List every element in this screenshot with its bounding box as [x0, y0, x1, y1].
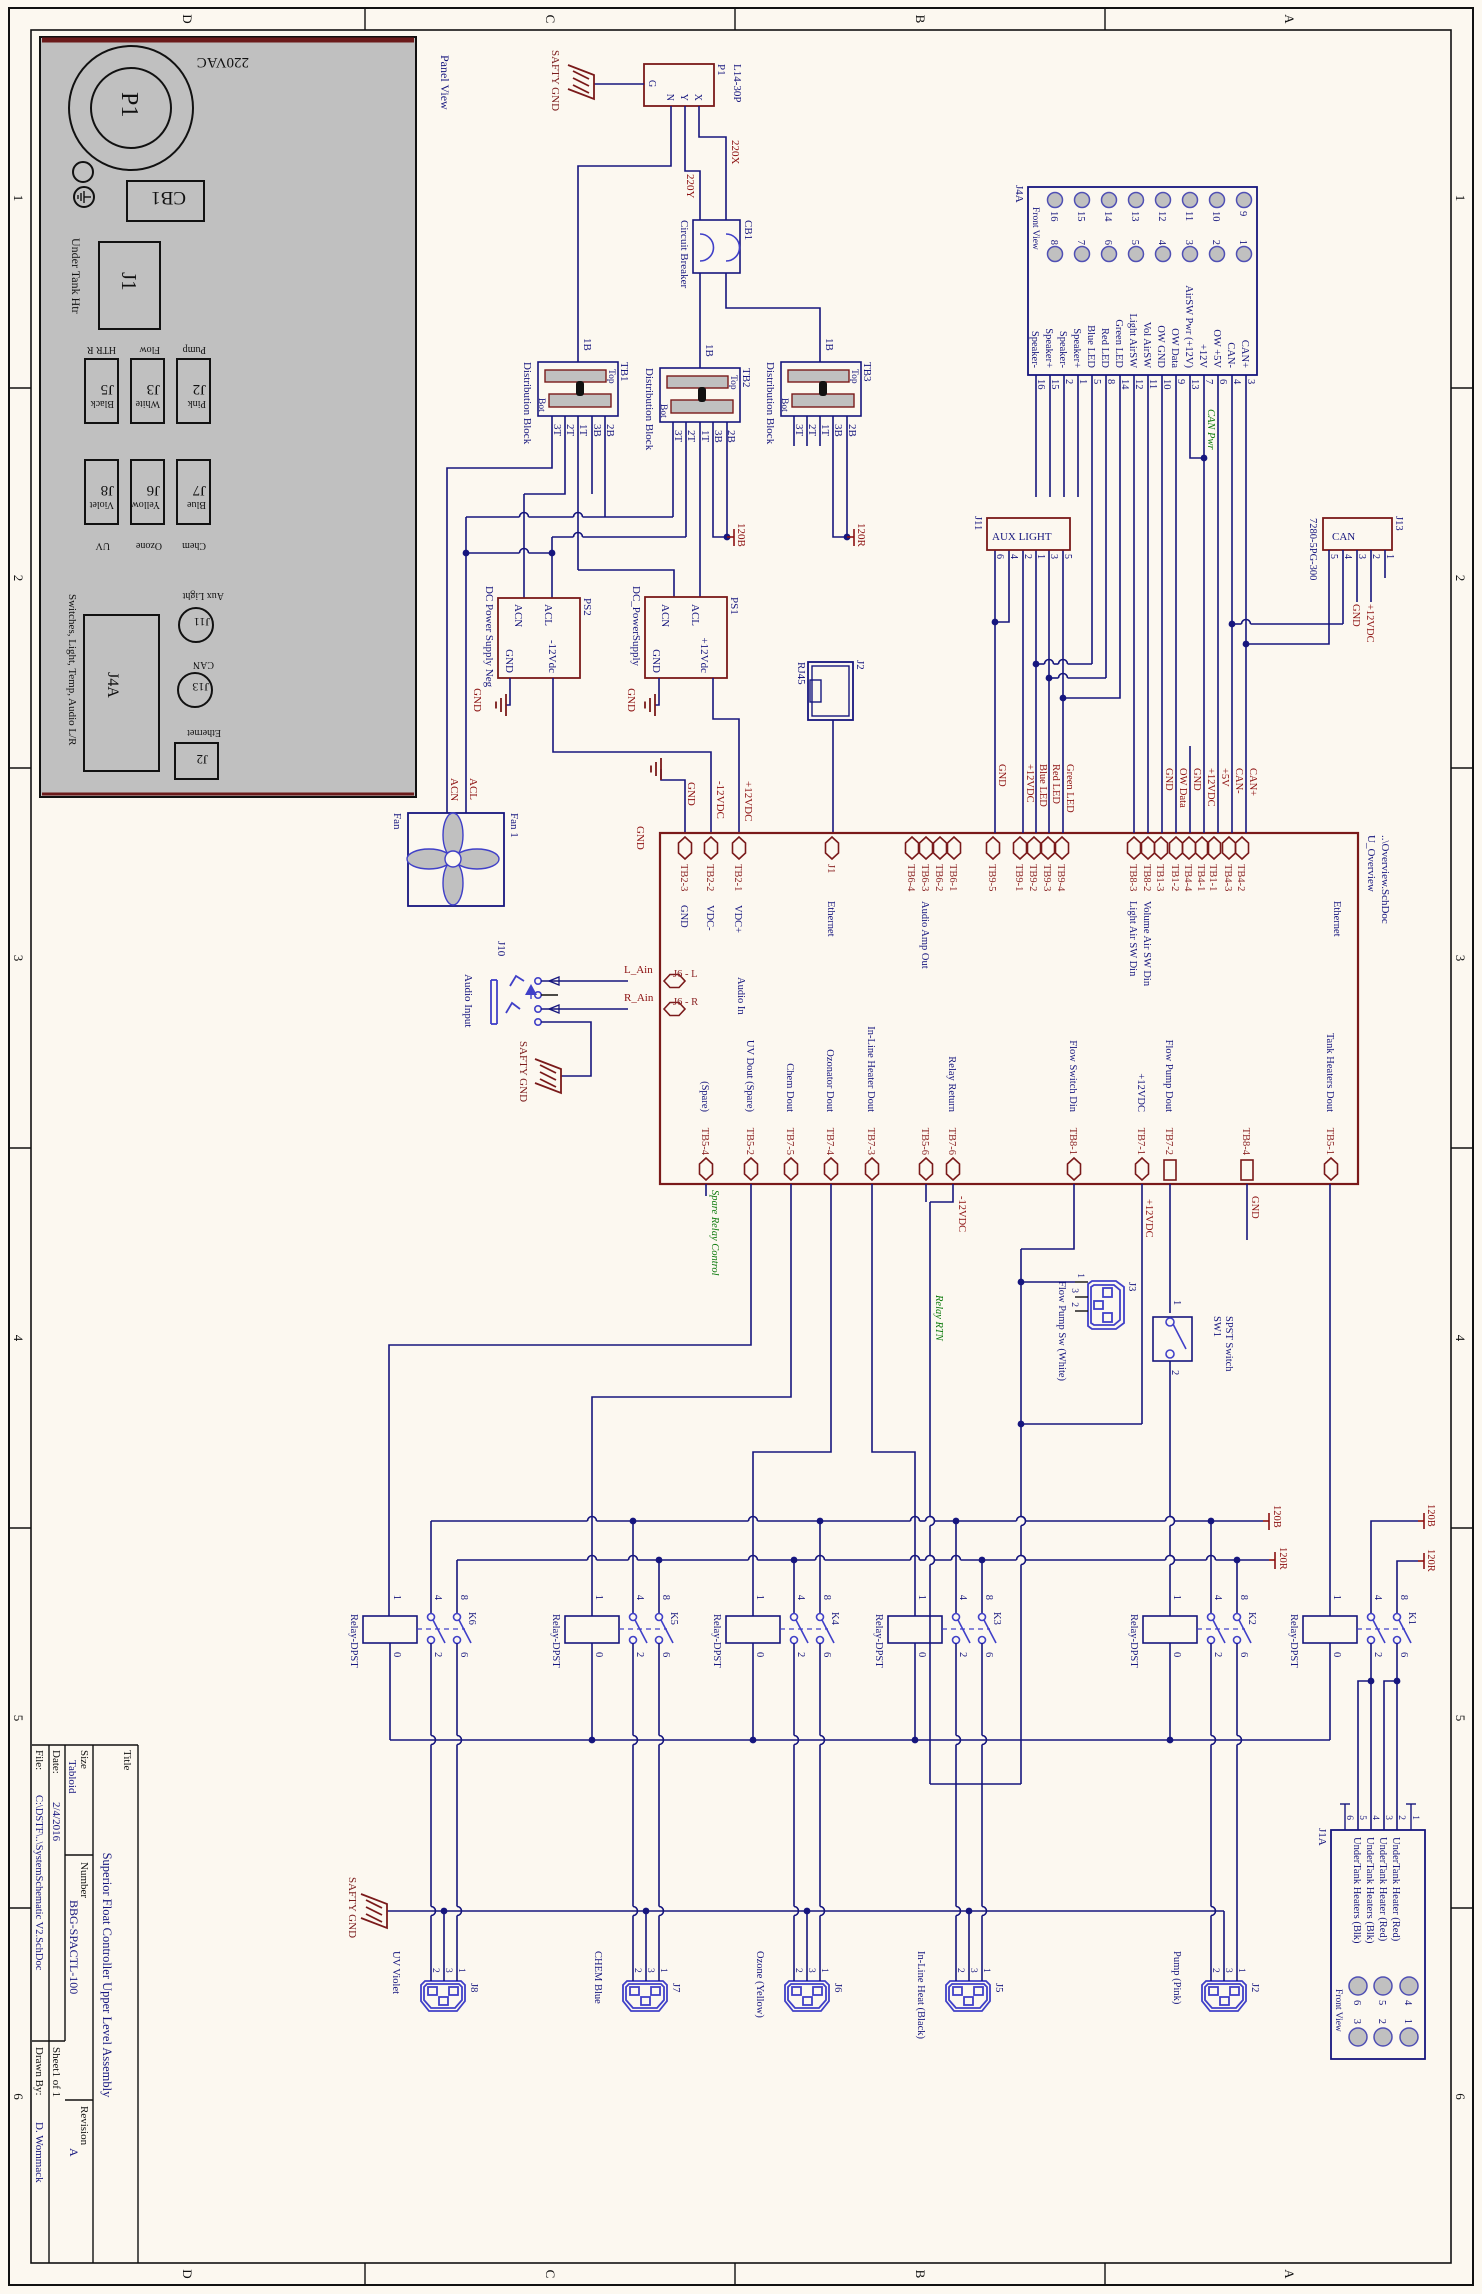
- +12V down to flow switch row: [1021, 1423, 1142, 1425]
- TB1-1T wire to PS1 ACN: [577, 416, 579, 570]
- svg-text:1: 1: [1453, 195, 1468, 202]
- svg-text:Tank Heaters Dout: Tank Heaters Dout: [1324, 1033, 1335, 1112]
- AirSW GND segment to TB4-4: [1189, 746, 1191, 833]
- svg-text:J5: J5: [101, 381, 114, 397]
- svg-text:Under Tank Htr: Under Tank Htr: [69, 238, 83, 314]
- svg-text:6: 6: [11, 2093, 26, 2100]
- svg-text:Red LED: Red LED: [1050, 764, 1061, 804]
- sheet entry TB5-6: [920, 1158, 933, 1180]
- svg-text:SAFTY GND: SAFTY GND: [346, 1877, 358, 1938]
- svg-text:Pump: Pump: [183, 344, 206, 355]
- svg-text:+5V: +5V: [1219, 768, 1230, 787]
- svg-text:2: 2: [634, 1652, 645, 1657]
- circuit breaker CB1: [693, 220, 740, 273]
- TB5-2 UV dout to K6: [389, 1184, 751, 1616]
- svg-text:Ethernet: Ethernet: [825, 901, 836, 937]
- svg-text:TB1-3: TB1-3: [1154, 864, 1165, 891]
- svg-text:TB7-1: TB7-1: [1135, 1128, 1146, 1155]
- svg-text:Relay RTN: Relay RTN: [933, 1294, 944, 1342]
- svg-text:Bot: Bot: [658, 404, 668, 418]
- sheet entry TB5-1: [1325, 1158, 1338, 1180]
- svg-text:1: 1: [1171, 1595, 1182, 1600]
- svg-text:C:\DSTF\..\SystemSchematic V2.: C:\DSTF\..\SystemSchematic V2.SchDoc: [33, 1795, 44, 1971]
- svg-text:13: 13: [1129, 211, 1140, 222]
- aux pin2 +12VDC row: [1022, 550, 1024, 833]
- svg-text:Ozone (Yellow): Ozone (Yellow): [754, 1951, 765, 2018]
- distribution block TB2: [660, 368, 740, 422]
- svg-text:+12VDC: +12VDC: [742, 781, 754, 821]
- svg-text:(Spare): (Spare): [699, 1081, 710, 1112]
- svg-text:Violet: Violet: [89, 499, 114, 510]
- svg-text:Relay-DPST: Relay-DPST: [711, 1614, 722, 1668]
- svg-text:120R: 120R: [1425, 1549, 1436, 1572]
- svg-text:TB1-2: TB1-2: [1169, 864, 1180, 891]
- svg-text:+12VDC: +12VDC: [1143, 1199, 1154, 1238]
- relay K5 pin0 to return bus: [591, 1643, 593, 1740]
- J4A pin 12 stub: [1133, 375, 1135, 400]
- svg-text:120B: 120B: [735, 523, 747, 547]
- svg-text:0: 0: [1171, 1652, 1182, 1657]
- J1A pin1 stub: [1410, 1804, 1412, 1830]
- svg-text:6: 6: [1238, 1652, 1249, 1657]
- svg-text:DC_PowerSupply: DC_PowerSupply: [630, 586, 642, 667]
- J4A pin circle 11 / 3: [1183, 193, 1198, 208]
- svg-text:Aux Light: Aux Light: [182, 590, 224, 601]
- svg-text:120R: 120R: [855, 523, 867, 548]
- svg-text:TB4-3: TB4-3: [1222, 864, 1233, 891]
- relay K4 pin0 to return bus: [752, 1643, 754, 1740]
- sheet entry TB6-1: [948, 837, 961, 859]
- P1 connector circle (panel view): [69, 46, 193, 170]
- svg-text:J6 - R: J6 - R: [673, 997, 698, 1008]
- svg-text:Panel View: Panel View: [438, 55, 452, 110]
- ground pin3 stubs to safety bus: [443, 1911, 445, 1981]
- svg-text:220VAC: 220VAC: [197, 54, 249, 70]
- svg-text:2: 2: [1022, 554, 1033, 559]
- mid contact stub: [541, 994, 558, 996]
- svg-text:CAN: CAN: [1332, 531, 1355, 543]
- svg-text:J7: J7: [192, 482, 206, 498]
- svg-text:CB1: CB1: [151, 187, 186, 208]
- flow row 461: [1020, 1249, 1022, 1517]
- J4A pin circle 15 / 7: [1075, 193, 1090, 208]
- svg-text:ACN: ACN: [512, 604, 524, 627]
- svg-text:P1: P1: [715, 64, 727, 76]
- svg-text:UV Dout (Spare): UV Dout (Spare): [744, 1040, 755, 1113]
- svg-text:D. Wommack: D. Wommack: [33, 2122, 45, 2183]
- svg-text:CAN: CAN: [193, 659, 214, 670]
- bundle rows J4A to U block: [1245, 400, 1247, 833]
- svg-text:Distribution Block: Distribution Block: [764, 362, 776, 445]
- svg-text:White: White: [135, 398, 160, 409]
- svg-text:TB6-1: TB6-1: [947, 864, 958, 891]
- SPST switch SW1: [1153, 1317, 1192, 1361]
- sheet entry TB9-2: [1028, 837, 1041, 859]
- svg-text:Ozonator Dout: Ozonator Dout: [824, 1049, 835, 1112]
- panel J4A: [84, 615, 159, 771]
- svg-text:TB9-4: TB9-4: [1055, 864, 1066, 892]
- svg-text:GND: GND: [1249, 1196, 1260, 1219]
- svg-text:8: 8: [1048, 240, 1059, 245]
- svg-text:TB4-2: TB4-2: [1235, 864, 1246, 891]
- svg-text:GND: GND: [685, 782, 697, 806]
- connector P1 L14-30P: [644, 64, 714, 106]
- svg-text:1: 1: [391, 1595, 402, 1600]
- svg-text:1: 1: [916, 1595, 927, 1600]
- svg-text:Blue LED: Blue LED: [1085, 325, 1096, 368]
- relay K3 contacts: [953, 1614, 960, 1621]
- TB2-2T wire to PS2 ACL: [685, 422, 687, 537]
- svg-text:J1: J1: [825, 864, 836, 873]
- svg-text:Volume Air SW Din: Volume Air SW Din: [1141, 901, 1152, 987]
- svg-text:UnderTank Heater (Red): UnderTank Heater (Red): [1377, 1837, 1388, 1942]
- TB7-3 inline heater dout to K3: [872, 1184, 915, 1616]
- J4A pin circle 16 / 8: [1048, 193, 1063, 208]
- svg-text:X: X: [692, 94, 703, 102]
- svg-text:120B: 120B: [1425, 1504, 1436, 1527]
- svg-text:ACL: ACL: [542, 604, 554, 626]
- power supply PS2: [498, 598, 580, 678]
- svg-text:Vol AirSW: Vol AirSW: [1141, 322, 1152, 368]
- AirSW Pwr jog to +12V: [1190, 400, 1201, 458]
- svg-text:GND: GND: [996, 764, 1007, 787]
- svg-text:TB7-5: TB7-5: [784, 1128, 795, 1155]
- svg-text:GND: GND: [1163, 768, 1174, 791]
- J4A pin 8 stub: [1105, 375, 1107, 400]
- panel J11 aux light: [179, 608, 213, 642]
- panel chassis ground circle: [74, 187, 94, 207]
- svg-text:3: 3: [1069, 1288, 1079, 1293]
- svg-text:4: 4: [1156, 240, 1167, 246]
- sheet entry TB6-3: [920, 837, 933, 859]
- svg-text:VDC+: VDC+: [732, 905, 743, 933]
- svg-text:P1: P1: [116, 92, 142, 117]
- panel J1 Under Tank Htr: [99, 242, 160, 329]
- relay K1 coil: [1303, 1616, 1357, 1643]
- svg-text:220X: 220X: [729, 140, 741, 165]
- svg-text:2: 2: [11, 575, 26, 582]
- svg-text:CHEM Blue: CHEM Blue: [592, 1951, 603, 2004]
- svg-text:Speaker-: Speaker-: [1029, 331, 1040, 369]
- svg-text:+12VDC: +12VDC: [1135, 1073, 1146, 1112]
- J4A pin circle 13 / 5: [1129, 193, 1144, 208]
- svg-text:J4A: J4A: [104, 672, 121, 698]
- sheet entry TB4-4: [1183, 837, 1196, 859]
- wire CB1 out to TB2 1B: [699, 273, 701, 368]
- svg-text:TB4-1: TB4-1: [1195, 864, 1206, 891]
- svg-text:CAN Pwr: CAN Pwr: [1205, 409, 1216, 450]
- svg-text:SPST Switch: SPST Switch: [1223, 1316, 1234, 1372]
- svg-text:J2: J2: [196, 752, 208, 767]
- svg-text:2: 2: [1453, 575, 1468, 582]
- svg-text:L_Ain: L_Ain: [624, 964, 653, 976]
- svg-text:Date:: Date:: [50, 1750, 62, 1774]
- svg-text:SAFTY GND: SAFTY GND: [549, 50, 561, 111]
- relay K1 pin0 to return bus: [1329, 1643, 1331, 1740]
- svg-text:TB8-1: TB8-1: [1067, 1128, 1078, 1155]
- wire P1-G to safety gnd: [594, 83, 644, 85]
- svg-text:2: 2: [432, 1652, 443, 1657]
- svg-text:GND: GND: [1191, 768, 1202, 791]
- svg-text:Light Air SW Din: Light Air SW Din: [1127, 901, 1138, 977]
- svg-text:ACN: ACN: [448, 778, 460, 801]
- connector J8 IEC: [421, 1981, 465, 2011]
- jack input direction arrows: [549, 977, 559, 985]
- svg-text:J6: J6: [832, 1983, 843, 1992]
- svg-text:Front View: Front View: [1030, 207, 1040, 250]
- svg-text:Spare Relay Control: Spare Relay Control: [709, 1190, 720, 1276]
- panel connectors 2-col grid: [177, 359, 210, 423]
- svg-text:+12V: +12V: [1197, 344, 1208, 368]
- svg-text:TB2-3: TB2-3: [678, 864, 689, 891]
- svg-text:120R: 120R: [1277, 1547, 1288, 1570]
- svg-text:0: 0: [1331, 1652, 1342, 1657]
- svg-text:TB5-2: TB5-2: [744, 1128, 755, 1155]
- svg-text:-12Vdc: -12Vdc: [546, 640, 558, 673]
- svg-text:Pump (Pink): Pump (Pink): [1171, 1951, 1182, 2005]
- sheet entry TB9-5: [987, 837, 1000, 859]
- J4A pin 6 stub: [1217, 375, 1219, 400]
- svg-text:Superior Float Controller Uppe: Superior Float Controller Upper Level As…: [100, 1853, 114, 2099]
- svg-text:0: 0: [593, 1652, 604, 1657]
- svg-text:4: 4: [1212, 1595, 1223, 1601]
- flow row to relay rtn jog: [930, 1783, 1021, 1785]
- spare relay control green label: [705, 1184, 707, 1196]
- sheet entry TB8-1: [1068, 1158, 1081, 1180]
- svg-text:5: 5: [1376, 2000, 1387, 2005]
- svg-text:TB8-3: TB8-3: [1127, 864, 1138, 891]
- svg-text:Tabloid: Tabloid: [66, 1760, 78, 1794]
- svg-text:1: 1: [11, 195, 26, 202]
- ACL link to PS2 ACL feed: [529, 552, 553, 554]
- svg-text:+12VDC: +12VDC: [1024, 764, 1035, 803]
- svg-text:J11: J11: [972, 516, 983, 530]
- svg-text:UnderTank Heaters (Blk): UnderTank Heaters (Blk): [1351, 1837, 1362, 1944]
- svg-text:2: 2: [1372, 1652, 1383, 1657]
- relay K2 pin0 to return bus: [1169, 1643, 1171, 1740]
- svg-text:15: 15: [1075, 211, 1086, 222]
- relay contact rows to connectors: [456, 1643, 458, 1736]
- TB1-2T wire to PS2 ACN: [524, 416, 565, 494]
- svg-text:0: 0: [916, 1652, 927, 1657]
- svg-text:5: 5: [1062, 554, 1073, 559]
- TB8-1 flow switch din row: [1021, 1184, 1074, 1249]
- aux pin6+4 GND row: [994, 550, 996, 833]
- relay K6 coil: [363, 1616, 417, 1643]
- svg-text:14: 14: [1102, 211, 1113, 222]
- svg-text:6: 6: [458, 1652, 469, 1657]
- wire CB1 out to TB3 1B: [726, 273, 820, 362]
- panel indicator circle: [73, 162, 93, 182]
- connector J3 flow pump sw: [1088, 1281, 1124, 1329]
- svg-text:TB2: TB2: [740, 368, 752, 388]
- svg-text:CAN+: CAN+: [1239, 340, 1250, 368]
- svg-text:Switches, Light, Temp, Audio L: Switches, Light, Temp, Audio L/R: [66, 594, 78, 746]
- svg-text:9: 9: [1237, 211, 1248, 216]
- svg-text:1B: 1B: [581, 338, 593, 351]
- svg-text:TB5-4: TB5-4: [699, 1128, 710, 1156]
- svg-text:2: 2: [795, 1652, 806, 1657]
- svg-text:TB9-1: TB9-1: [1013, 864, 1024, 891]
- J13 pin stubs: [1384, 550, 1386, 578]
- svg-text:K1: K1: [1406, 1612, 1417, 1625]
- svg-text:3: 3: [1383, 1815, 1393, 1820]
- svg-text:K2: K2: [1246, 1612, 1257, 1625]
- svg-text:12: 12: [1156, 211, 1167, 222]
- svg-text:D: D: [180, 2269, 195, 2278]
- svg-text:-12VDC: -12VDC: [714, 781, 726, 819]
- relay return bus vertical: [390, 1739, 1330, 1741]
- svg-text:Ethernet: Ethernet: [187, 727, 221, 738]
- svg-text:4: 4: [634, 1595, 645, 1601]
- svg-text:6: 6: [821, 1652, 832, 1657]
- safety ground (audio): [535, 1059, 561, 1093]
- TB5-1 row to K1 pin1: [1329, 1184, 1331, 1616]
- svg-text:5: 5: [1129, 240, 1140, 245]
- connector J7 IEC: [623, 1981, 667, 2011]
- svg-text:J1: J1: [117, 272, 141, 291]
- svg-text:N: N: [664, 94, 675, 101]
- LED rows diverting down to TB9: [1066, 400, 1120, 698]
- svg-text:TB5-1: TB5-1: [1324, 1128, 1335, 1155]
- svg-text:Chem Dout: Chem Dout: [784, 1063, 795, 1112]
- sheet entry TB8-2: [1142, 837, 1155, 859]
- svg-text:J4A: J4A: [1013, 185, 1025, 203]
- svg-text:0: 0: [391, 1652, 402, 1657]
- svg-text:Audio In: Audio In: [735, 977, 746, 1015]
- svg-text:6: 6: [1344, 1815, 1354, 1820]
- svg-text:In-Line Heat (Black): In-Line Heat (Black): [915, 1951, 926, 2040]
- sheet entry TB7-6: [947, 1158, 960, 1180]
- TB7-6 relay return row: [930, 1184, 953, 1202]
- svg-text:Size: Size: [78, 1750, 90, 1769]
- svg-text:Fan: Fan: [391, 813, 403, 830]
- svg-text:J5: J5: [993, 1983, 1004, 1992]
- svg-text:Audio Input: Audio Input: [462, 974, 474, 1027]
- relay K3 coil: [888, 1616, 942, 1643]
- svg-text:TB8-4: TB8-4: [1240, 1128, 1251, 1156]
- svg-text:4: 4: [795, 1595, 806, 1601]
- svg-text:J13: J13: [192, 680, 209, 694]
- svg-text:UnderTank Heaters (Blk): UnderTank Heaters (Blk): [1364, 1837, 1375, 1944]
- svg-text:TB5-6: TB5-6: [919, 1128, 930, 1155]
- connector J13 CAN: [1323, 518, 1392, 550]
- svg-text:8: 8: [1238, 1595, 1249, 1600]
- svg-text:TB7-3: TB7-3: [865, 1128, 876, 1155]
- sheet entry TB1-2: [1170, 837, 1183, 859]
- svg-text:PS2: PS2: [581, 598, 593, 616]
- svg-text:UV: UV: [95, 540, 110, 551]
- svg-text:TB9-5: TB9-5: [986, 864, 997, 891]
- svg-text:4: 4: [1453, 1335, 1468, 1342]
- svg-text:K5: K5: [668, 1612, 679, 1625]
- svg-text:Number: Number: [78, 1862, 90, 1898]
- svg-text:Drawn By:: Drawn By:: [33, 2047, 45, 2096]
- TB2 2B/3B join -> 120B net label: [726, 422, 728, 537]
- svg-text:PS1: PS1: [728, 597, 740, 615]
- svg-text:GND: GND: [634, 826, 646, 850]
- svg-text:Chem: Chem: [182, 540, 206, 551]
- SW1 to K2 coil row: [1169, 1361, 1171, 1517]
- svg-text:Green LED: Green LED: [1064, 764, 1075, 813]
- svg-text:J2: J2: [1249, 1983, 1260, 1992]
- svg-text:4: 4: [1370, 1815, 1380, 1820]
- svg-text:In-Line Heater Dout: In-Line Heater Dout: [865, 1026, 876, 1112]
- svg-text:TB9-3: TB9-3: [1041, 864, 1052, 891]
- svg-text:+12VDC: +12VDC: [1364, 604, 1375, 643]
- svg-text:Circuit Breaker: Circuit Breaker: [678, 220, 690, 288]
- svg-text:..\Overview.SchDoc: ..\Overview.SchDoc: [1379, 835, 1391, 924]
- svg-text:CAN-: CAN-: [1233, 768, 1244, 794]
- relay K2 contacts: [1208, 1614, 1215, 1621]
- J4A pin 10 stub: [1161, 375, 1163, 400]
- svg-text:C: C: [543, 15, 558, 24]
- svg-text:ACL: ACL: [467, 778, 479, 800]
- aux light rows to U block: [1062, 550, 1064, 833]
- relay K6 pin0 to return bus: [389, 1643, 391, 1740]
- svg-text:Sheet1 of 1: Sheet1 of 1: [50, 2047, 62, 2097]
- svg-text:J11: J11: [194, 615, 210, 629]
- relay K1 contacts: [1368, 1614, 1375, 1621]
- svg-text:Speaker+: Speaker+: [1071, 328, 1082, 368]
- svg-text:AUX LIGHT: AUX LIGHT: [992, 531, 1052, 543]
- svg-text:Distribution Block: Distribution Block: [521, 362, 533, 445]
- svg-text:A: A: [67, 2148, 81, 2157]
- TB5-6 stub: [925, 1184, 927, 1202]
- svg-text:GND: GND: [1350, 604, 1361, 627]
- relay K6 contacts: [428, 1614, 435, 1621]
- TB7-5 chem dout to K5: [592, 1184, 791, 1616]
- svg-text:K6: K6: [466, 1612, 477, 1625]
- svg-text:J8: J8: [468, 1983, 479, 1992]
- svg-text:Front View: Front View: [1333, 1989, 1343, 2032]
- J4A pin 7 stub: [1203, 375, 1205, 400]
- svg-text:Top: Top: [728, 375, 738, 390]
- svg-text:OW Data: OW Data: [1169, 328, 1180, 368]
- sheet entry TB7-4: [825, 1158, 838, 1180]
- safety ground bus vertical: [387, 1910, 1224, 1912]
- svg-text:Revision: Revision: [78, 2106, 90, 2146]
- svg-text:Ozone: Ozone: [135, 540, 162, 551]
- wire P1-X 220X to CB1: [699, 106, 726, 220]
- svg-text:GND: GND: [678, 905, 689, 928]
- svg-text:7: 7: [1075, 240, 1086, 245]
- svg-text:OW +5V: OW +5V: [1211, 329, 1222, 368]
- svg-text:GND: GND: [625, 688, 637, 712]
- svg-text:Flow: Flow: [139, 344, 160, 355]
- panel view gray box: [40, 37, 416, 797]
- svg-text:J13: J13: [1393, 516, 1404, 531]
- TB2-1T wire to PS1 ACL: [699, 422, 701, 597]
- J4A pin circle 14 / 6: [1102, 193, 1117, 208]
- +12V row with CAN Pwr tap: [1203, 400, 1205, 833]
- Fan 1: [408, 813, 504, 906]
- J4A pin 2 stub: [1063, 375, 1065, 400]
- svg-text:J10: J10: [495, 941, 507, 957]
- safety ground (outputs): [361, 1894, 387, 1928]
- svg-text:TB6-3: TB6-3: [919, 864, 930, 891]
- svg-text:3: 3: [11, 955, 26, 962]
- svg-text:CAN+: CAN+: [1247, 768, 1258, 796]
- sheet entry TB1-3: [1155, 837, 1168, 859]
- PS2 -12Vdc wire to TB2-2 VDC-: [553, 678, 711, 833]
- connector J11 AUX LIGHT: [987, 518, 1070, 550]
- sheet entry TB4-1: [1196, 837, 1209, 859]
- svg-text:Bot: Bot: [536, 398, 546, 412]
- TB2-3T wire to fan ACL rail: [672, 422, 674, 517]
- TB7-1 +12VDC row: [1141, 1184, 1143, 1424]
- PS2 GND earth: [506, 678, 510, 705]
